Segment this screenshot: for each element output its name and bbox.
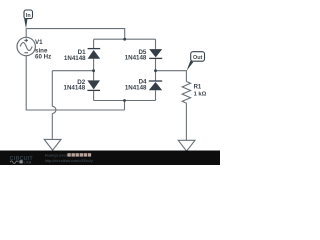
svg-text:1N4148: 1N4148 [64,55,86,62]
svg-text:R1: R1 [194,85,202,91]
svg-text:60 Hz: 60 Hz [35,54,51,61]
svg-text:1N4148: 1N4148 [125,84,147,91]
svg-text:1N4148: 1N4148 [125,54,147,61]
svg-text:1N4148: 1N4148 [64,85,86,92]
svg-text:V1: V1 [35,39,43,46]
svg-text:LAB: LAB [24,159,32,164]
svg-text:1 kΩ: 1 kΩ [194,91,207,97]
svg-text:Out: Out [193,55,202,61]
svg-text:http://circuitlab.com/c352s2y: http://circuitlab.com/c352s2y [45,159,93,163]
svg-text:HuangLoson /: HuangLoson / [45,154,71,158]
svg-text:In: In [26,13,31,19]
